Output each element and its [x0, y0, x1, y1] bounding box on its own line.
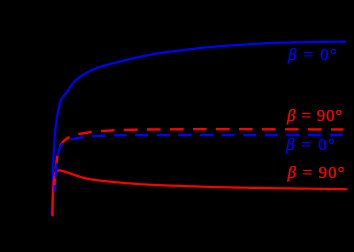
- label beta=90 red: [287, 106, 343, 126]
- curve beta=0 solid blue: [52, 42, 345, 214]
- curve beta=0 dashed blue: [55, 135, 344, 192]
- label beta=0 blue top: [288, 45, 338, 65]
- curve beta=90 dashed red: [54, 129, 343, 192]
- label beta=0 blue lower: [286, 135, 336, 155]
- label beta=90 red bottom: [288, 163, 346, 183]
- curve beta=90 solid red: [52, 170, 346, 215]
